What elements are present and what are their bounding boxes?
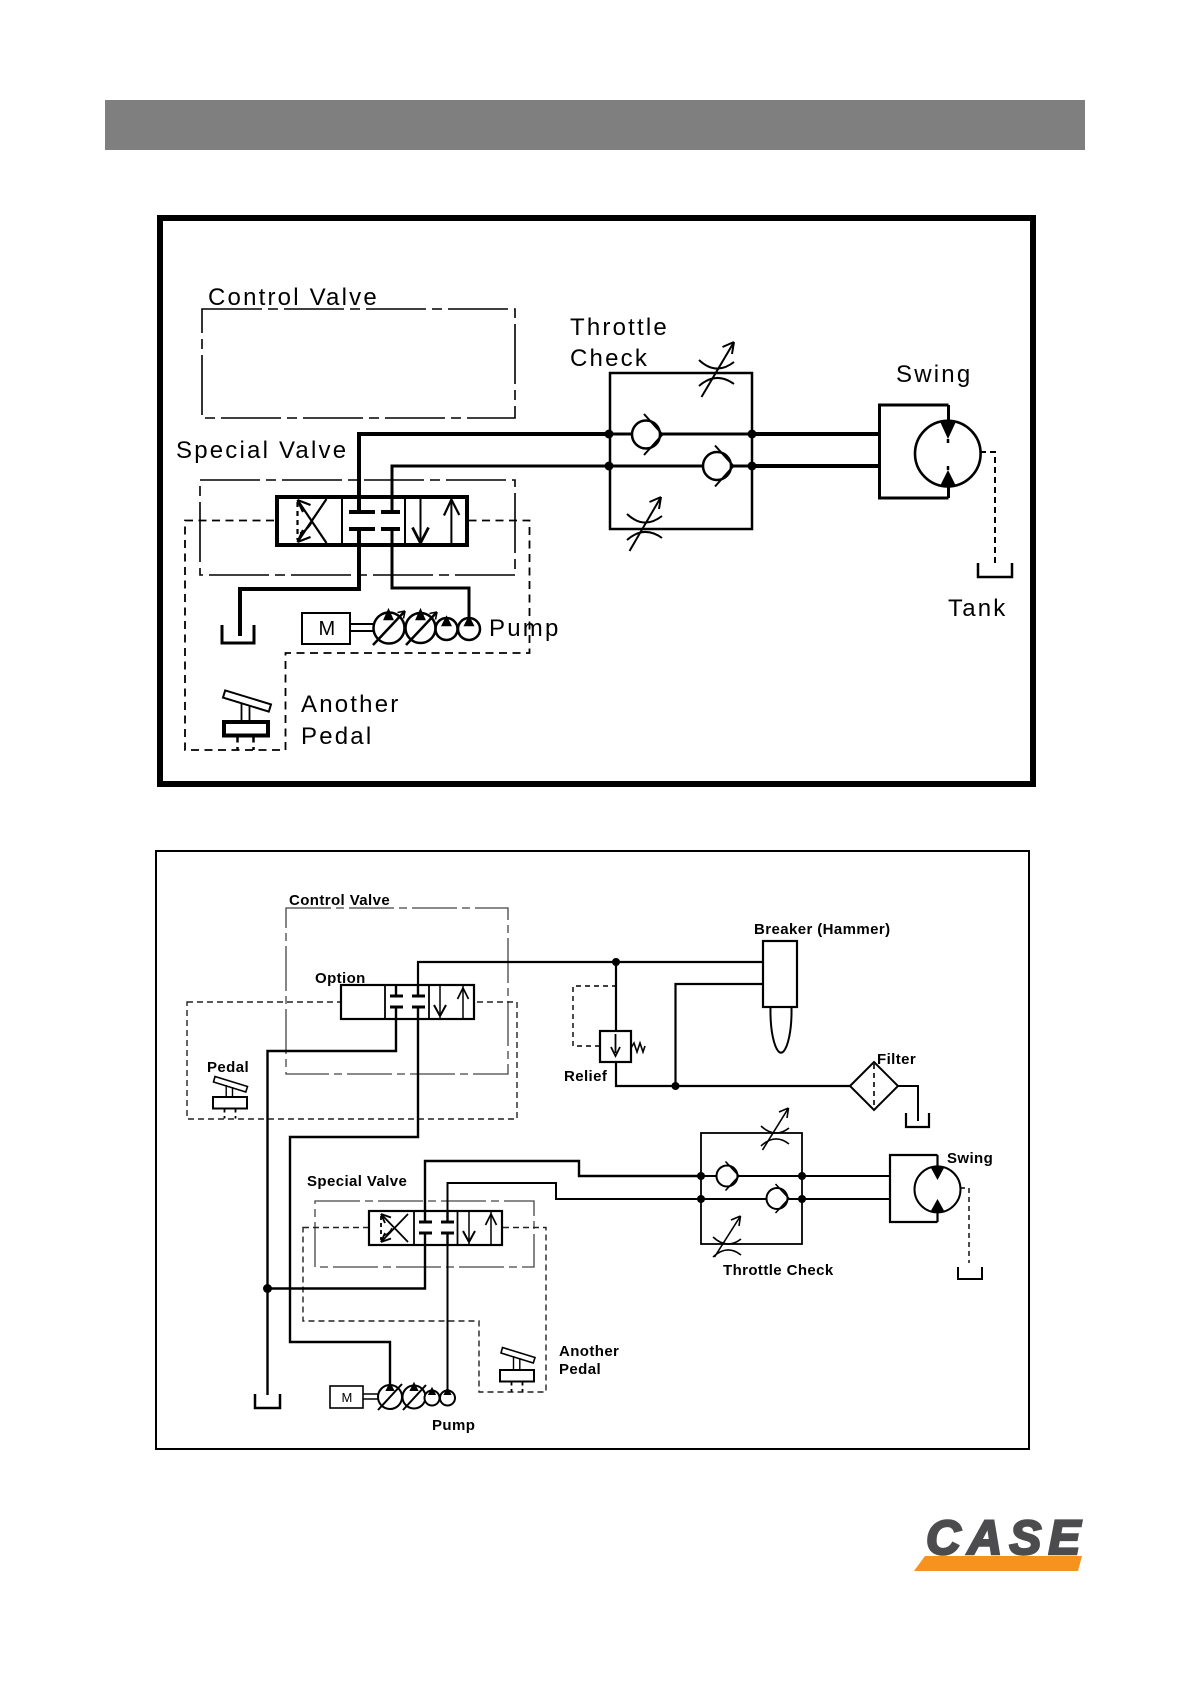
- svg-text:Breaker (Hammer): Breaker (Hammer): [754, 921, 890, 938]
- svg-text:Swing: Swing: [896, 361, 972, 388]
- junction dot tank line: [263, 1284, 272, 1293]
- check valve 1 (panel 2): [717, 1162, 740, 1191]
- valve1 parallel arrows section: [413, 497, 460, 545]
- wire option valve top to breaker: [418, 962, 763, 996]
- throttle valve symbol top (panel 1): [699, 342, 734, 397]
- right tank symbol (panel 1): [978, 563, 1012, 577]
- throttle check box (panel 1): [610, 373, 752, 529]
- pump circle 3 (panel 1): [436, 618, 458, 640]
- svg-text:Pump: Pump: [489, 615, 561, 642]
- pump circle 3 (panel 2): [425, 1389, 440, 1406]
- control valve dash-dot box (panel 2): [286, 908, 508, 1074]
- junction dot breaker supply: [612, 958, 620, 966]
- breaker chisel: [770, 1007, 791, 1053]
- relief valve arrow: [611, 1034, 620, 1056]
- motor M box (panel 2): [330, 1386, 363, 1408]
- svg-text:Control Valve: Control Valve: [289, 892, 390, 909]
- tank symbol bottom left (panel 2): [255, 1394, 280, 1408]
- tank symbol swing (panel 2): [958, 1267, 982, 1279]
- wire special valve port down to pump: [447, 1234, 449, 1390]
- wire relief supply: [615, 962, 617, 1031]
- svg-text:Pedal: Pedal: [559, 1361, 601, 1378]
- wire breaker return line: [676, 984, 764, 1086]
- wire special valve line 2 to throttle check: [448, 1183, 702, 1221]
- swing motor bracket (panel 1): [880, 405, 949, 498]
- junction dot breaker return: [672, 1082, 680, 1090]
- wire line 1 to swing motor: [752, 432, 879, 436]
- pilot dashed enclosure (panel 1): [185, 521, 530, 751]
- panel 1 frame: [160, 218, 1033, 784]
- pump pilot dashed shape (panel 2): [303, 1228, 546, 1393]
- motor shaft (panel 1): [350, 624, 374, 631]
- junction dots throttle check (panel 2): [697, 1172, 705, 1180]
- tank symbol filter (panel 2): [906, 1113, 929, 1127]
- wire valve1 port A up to throttle check line 1: [359, 434, 609, 497]
- breaker body: [763, 941, 797, 1007]
- pump circle 1 (panel 1): [373, 611, 405, 645]
- svg-text:Another: Another: [301, 691, 400, 718]
- pump circle 4 (panel 2): [440, 1389, 455, 1406]
- special valve dash-dot box (panel 2): [315, 1201, 534, 1267]
- control valve dash-dot box (panel 1): [202, 309, 515, 418]
- wire valve1 port B up to throttle check line 2: [392, 466, 609, 497]
- valve1 blocked center section: [349, 497, 400, 545]
- svg-text:M: M: [319, 618, 336, 640]
- special valve dash-dot box (panel 1): [200, 480, 515, 575]
- svg-text:Check: Check: [570, 345, 649, 372]
- wire throttle check line 1 inside box: [609, 433, 752, 436]
- pedal symbol (panel 2): [213, 1077, 248, 1119]
- relief valve spring: [631, 1043, 645, 1052]
- throttle check box (panel 2): [701, 1133, 802, 1244]
- option valve arrows section: [434, 985, 469, 1019]
- check valve 1 (panel 1): [632, 414, 663, 455]
- wire line 2 to swing motor: [752, 464, 879, 468]
- wire filter to tank: [898, 1086, 918, 1121]
- throttle valve symbol top (panel 2): [761, 1108, 789, 1150]
- wire relief to filter: [616, 1062, 850, 1086]
- swing drain dashed (panel 2): [960, 1188, 969, 1263]
- pedal dashed box (panel 2): [187, 1002, 517, 1119]
- header gray bar: [105, 100, 1085, 150]
- CASE logo orange bar: [914, 1556, 1082, 1571]
- pump circle 2 (panel 1): [406, 611, 438, 645]
- valve1 crossed arrows section: [298, 499, 327, 543]
- pump circle 4 (panel 1): [458, 618, 480, 640]
- motor M box (panel 1): [302, 613, 350, 644]
- swing drain dashed line (panel 1): [980, 452, 995, 563]
- special valve crossed arrows section: [381, 1214, 408, 1242]
- another pedal symbol (panel 1): [223, 690, 271, 750]
- option valve blocked ports: [390, 985, 425, 1019]
- svg-text:Swing: Swing: [947, 1150, 993, 1167]
- panel 2 frame: [156, 851, 1029, 1449]
- swing motor arrows (panel 2): [931, 1167, 945, 1180]
- option valve body (panel 2): [341, 985, 474, 1019]
- wire special valve line 1 to throttle check: [425, 1161, 701, 1221]
- svg-text:Control Valve: Control Valve: [208, 284, 379, 311]
- svg-text:Pump: Pump: [432, 1417, 475, 1434]
- wire option valve to tank junction: [268, 1019, 397, 1395]
- left tank symbol (panel 1): [222, 625, 254, 643]
- throttle valve symbol bottom (panel 1): [627, 497, 662, 551]
- another pedal symbol (panel 2): [500, 1348, 535, 1392]
- throttle check line 2 (panel 2): [701, 1198, 890, 1200]
- throttle check line 1 (panel 2): [701, 1175, 890, 1177]
- junction dots throttle check (panel 1): [605, 430, 614, 439]
- special valve blocked ports (panel 2): [419, 1211, 454, 1245]
- svg-text:Tank: Tank: [948, 595, 1008, 622]
- swing motor arrows (panel 1): [940, 422, 956, 440]
- svg-text:M: M: [342, 1390, 353, 1405]
- svg-text:Filter: Filter: [877, 1051, 916, 1068]
- filter element dashed: [873, 1064, 875, 1108]
- wire valve1 port down to pump: [392, 545, 469, 617]
- wire option valve down to pump 1: [290, 1019, 418, 1385]
- swing motor circle (panel 1): [915, 421, 981, 487]
- svg-text:Special Valve: Special Valve: [307, 1173, 407, 1190]
- svg-text:Throttle: Throttle: [570, 314, 669, 341]
- pump circle 2 (panel 2): [403, 1384, 427, 1410]
- swing motor bracket (panel 2): [890, 1155, 938, 1222]
- svg-text:Relief: Relief: [564, 1068, 608, 1085]
- wire valve1 port down to left tank: [240, 545, 359, 636]
- svg-text:Throttle Check: Throttle Check: [723, 1262, 834, 1279]
- svg-text:Another: Another: [559, 1343, 619, 1360]
- motor shaft (panel 2): [363, 1394, 378, 1399]
- wire junction to special valve: [268, 1245, 426, 1289]
- check valve 2 (panel 1): [703, 446, 734, 487]
- special valve arrows section (panel 2): [463, 1211, 497, 1245]
- relief pilot dashed line: [573, 986, 616, 1046]
- swing motor circle (panel 2): [915, 1166, 961, 1212]
- relief valve body: [600, 1031, 631, 1062]
- svg-text:Special Valve: Special Valve: [176, 437, 348, 464]
- special valve body (panel 1): [277, 497, 467, 545]
- svg-text:Pedal: Pedal: [301, 723, 373, 750]
- wire throttle check line 2 inside box: [609, 465, 752, 468]
- throttle valve symbol bottom (panel 2): [713, 1216, 741, 1257]
- special valve body (panel 2): [369, 1211, 502, 1245]
- filter diamond: [850, 1062, 898, 1110]
- pump circle 1 (panel 2): [378, 1384, 402, 1410]
- check valve 2 (panel 2): [767, 1184, 790, 1213]
- svg-text:Pedal: Pedal: [207, 1059, 249, 1076]
